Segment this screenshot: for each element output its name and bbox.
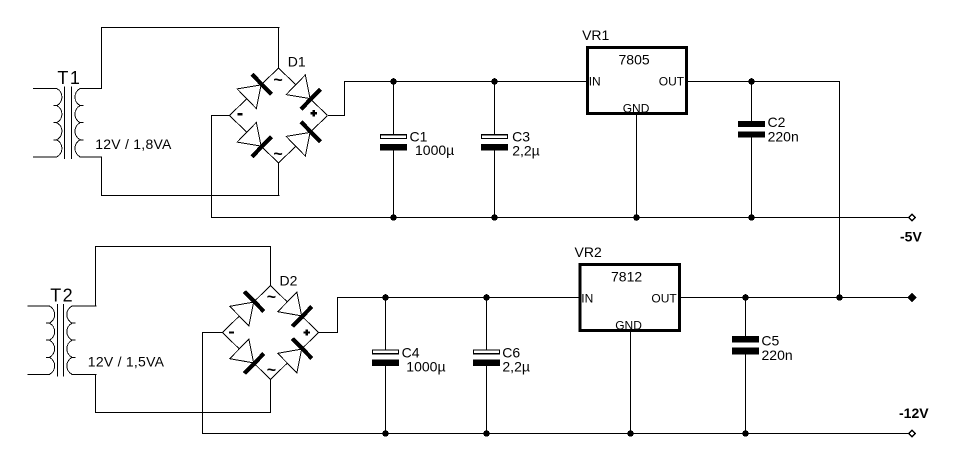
wire - T2 secondary top to bridge AC1 (bottom section top rail) [95, 246, 271, 248]
diode D1 top-left (minus to AC1) [237, 74, 271, 108]
bridge rectifier D2 diamond outline [223, 286, 319, 380]
junction C1 top [390, 78, 397, 85]
diode D2 bottom-left (minus to AC2) [230, 339, 264, 373]
wire - D1 plus vertical up to + rail [344, 81, 346, 116]
pin label IN VR2 [581, 291, 593, 305]
label 1000u C4 [406, 359, 445, 375]
pin label OUT VR1 [659, 74, 685, 88]
transformer T1 [33, 87, 102, 160]
label D2 minus [229, 331, 234, 333]
wire - VR1 OUT rail [687, 81, 840, 83]
diode D2 bottom-right (AC2 to plus) [278, 339, 312, 373]
label -5V [900, 228, 922, 244]
svg-text:T2: T2 [50, 286, 74, 306]
label 220n C5 [762, 347, 793, 363]
svg-text:GND: GND [615, 318, 642, 332]
pin label OUT VR2 [651, 291, 677, 305]
capacitor C4 1000u [372, 297, 399, 434]
junction VR1 OUT to mid rail [836, 294, 843, 301]
diode D1 bottom-left (minus to AC2) [237, 122, 271, 156]
label C4 [402, 344, 420, 360]
junction C2 bottom [748, 214, 755, 221]
label D1 minus [237, 113, 242, 115]
voltage regulator VR2 box [580, 265, 679, 331]
svg-text:T1: T1 [57, 68, 81, 88]
wire - vertical from rail down to D2 top vertex [270, 246, 272, 286]
label 12V / 1,8VA [95, 136, 172, 152]
wire - D1 minus vertical down to -5V rail [211, 115, 213, 218]
wire - vertical from rail down to T2 top lead [95, 246, 97, 307]
transformer T2 [28, 304, 97, 377]
wire - vertical up from AC2 wire to D2 bottom vertex [270, 380, 272, 414]
junction C2 top [748, 78, 755, 85]
wire - mid rail from bridge to VR2 IN [337, 297, 580, 299]
voltage regulator VR1 box [587, 48, 686, 114]
diode D1 bottom-right (AC2 to plus) [286, 122, 320, 156]
svg-text:-5V: -5V [900, 228, 922, 244]
junction C4 bottom [382, 430, 389, 437]
wire - D2 minus stub [202, 332, 223, 334]
label T2 [50, 286, 74, 306]
wire - T1 secondary top to bridge AC1 (top rail) [101, 27, 280, 29]
bridge rectifier D1 diamond outline [230, 68, 328, 163]
pin label IN VR1 [589, 74, 601, 88]
svg-text:VR2: VR2 [575, 244, 602, 260]
svg-text:C2: C2 [768, 114, 786, 130]
label 220n C2 [768, 129, 799, 145]
label C5 [761, 333, 779, 349]
svg-text:2,2µ: 2,2µ [512, 143, 540, 159]
wire - D1 minus stub [211, 115, 230, 117]
label C3 [512, 128, 530, 144]
label VR1 [582, 27, 609, 43]
junction C6 bottom [483, 430, 490, 437]
wire - vertical from top rail down to T1 top lead [101, 27, 103, 89]
junction C6 top [483, 294, 490, 301]
junction C1 bottom [390, 214, 397, 221]
pin label GND VR2 [615, 318, 642, 332]
capacitor C5 220n [732, 297, 759, 434]
label VR2 [575, 244, 602, 260]
capacitor C1 1000u [380, 81, 407, 218]
svg-text:12V / 1,8VA: 12V / 1,8VA [95, 136, 172, 152]
terminal -5V diamond [909, 214, 916, 221]
label C1 [410, 128, 428, 144]
wire - VR1 GND down to -5V rail [636, 115, 638, 219]
wire - VR2 GND down to -12V rail [630, 331, 632, 434]
label D2 ~ top [267, 289, 276, 306]
label 12V / 1,5VA [88, 353, 165, 369]
svg-text:OUT: OUT [651, 291, 677, 305]
wire - VR1 OUT vertical down to 0V mid rail [839, 81, 841, 298]
svg-text:7805: 7805 [619, 52, 650, 68]
terminal -12V diamond [909, 430, 916, 437]
wire - D1 plus stub [328, 115, 345, 117]
label 7812 [611, 269, 642, 285]
junction VR2 GND rail [627, 430, 634, 437]
wire - T2 bottom lead down and right to bridge AC2 [95, 374, 271, 413]
wire - vertical up from AC2 wire to D1 bottom vertex [278, 163, 280, 196]
capacitor C6 2,2u [473, 297, 500, 434]
junction C5 bottom [742, 430, 749, 437]
label 7805 [619, 52, 650, 68]
svg-text:~: ~ [273, 146, 282, 163]
svg-text:-12V: -12V [899, 405, 929, 421]
junction C5 top [742, 294, 749, 301]
svg-text:~: ~ [267, 362, 276, 379]
label D1 ~ top [273, 72, 282, 89]
wire - + rail from bridge to VR1 IN [344, 81, 587, 83]
svg-text:D2: D2 [280, 272, 298, 288]
label D1 plus [311, 110, 317, 116]
label C6 [502, 344, 520, 360]
junction C4 top [382, 294, 389, 301]
svg-text:220n: 220n [762, 347, 793, 363]
pin label GND VR1 [623, 101, 650, 115]
wire - D2 plus vertical up to mid rail [337, 297, 339, 333]
label D2 [280, 272, 298, 288]
svg-text:1000µ: 1000µ [415, 142, 454, 158]
diode D1 top-right (AC1 to plus) [286, 75, 320, 109]
label D2 plus [304, 329, 310, 335]
svg-text:2,2µ: 2,2µ [502, 359, 530, 375]
diode D2 top-left (minus to AC1) [230, 292, 264, 326]
capacitor C2 220n [738, 81, 765, 218]
svg-text:1000µ: 1000µ [406, 359, 445, 375]
svg-text:IN: IN [589, 74, 601, 88]
junction VR1 GND rail [633, 214, 640, 221]
svg-text:D1: D1 [288, 54, 306, 70]
svg-text:12V / 1,5VA: 12V / 1,5VA [88, 353, 165, 369]
label 2,2u C3 [512, 143, 540, 159]
wire - -5V rail [211, 217, 908, 219]
wire - D2 minus vertical down to -12V rail [202, 332, 204, 434]
capacitor C3 2,2u [481, 81, 508, 218]
junction C3 top [491, 78, 498, 85]
svg-text:VR1: VR1 [582, 27, 609, 43]
label D1 ~ bottom [273, 146, 282, 163]
wire - vertical from top rail down to D1 top vertex [278, 27, 280, 68]
diode D2 top-right (AC1 to plus) [278, 292, 312, 326]
svg-text:~: ~ [273, 72, 282, 89]
wire - VR2 OUT / 0V mid rail to terminal [679, 297, 911, 299]
terminal 0V filled diamond [907, 293, 917, 303]
label 2,2u C6 [502, 359, 530, 375]
label C2 [768, 114, 786, 130]
svg-text:7812: 7812 [611, 269, 642, 285]
wire - D2 plus stub [319, 332, 339, 334]
svg-text:GND: GND [623, 101, 650, 115]
svg-text:220n: 220n [768, 129, 799, 145]
svg-text:~: ~ [267, 289, 276, 306]
label T1 [57, 68, 81, 88]
svg-text:IN: IN [581, 291, 593, 305]
wire - T1 bottom lead down and right to bridge AC2 [101, 156, 280, 196]
label -12V [899, 405, 929, 421]
svg-text:OUT: OUT [659, 74, 685, 88]
wire - -12V rail [202, 433, 908, 435]
label D2 ~ bottom [267, 362, 276, 379]
junction C3 bottom [491, 214, 498, 221]
label D1 [288, 54, 306, 70]
label 1000u C1 [415, 142, 454, 158]
